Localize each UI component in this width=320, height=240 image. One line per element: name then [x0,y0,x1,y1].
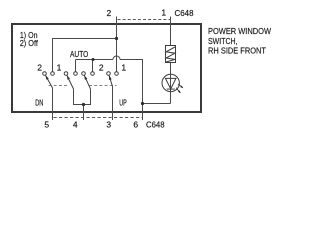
svg-text:2) Off: 2) Off [20,38,39,48]
svg-text:2: 2 [107,8,112,18]
svg-text:RH SIDE FRONT: RH SIDE FRONT [208,46,266,56]
svg-text:SWITCH,: SWITCH, [208,36,238,46]
svg-text:UP: UP [119,98,127,108]
svg-text:3: 3 [106,120,111,130]
svg-text:5: 5 [44,120,49,130]
svg-text:POWER WINDOW: POWER WINDOW [208,26,271,36]
svg-text:2: 2 [99,63,104,73]
svg-text:4: 4 [73,120,78,130]
svg-text:AUTO: AUTO [70,49,89,59]
svg-text:DN: DN [35,98,43,108]
svg-text:C648: C648 [175,8,194,18]
svg-text:1: 1 [57,62,62,72]
svg-text:1: 1 [161,8,166,18]
svg-text:2: 2 [37,62,42,72]
svg-text:1: 1 [121,63,126,73]
svg-text:C648: C648 [146,120,165,130]
svg-text:6: 6 [133,120,138,130]
